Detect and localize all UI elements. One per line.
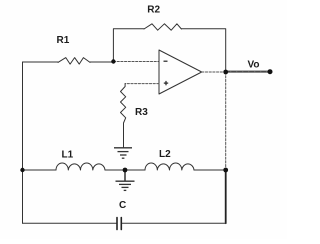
svg-text:R2: R2 (147, 5, 160, 16)
svg-text:L1: L1 (62, 150, 74, 161)
svg-text:R1: R1 (57, 35, 70, 46)
svg-text:R3: R3 (135, 107, 148, 118)
svg-text:Vo: Vo (248, 60, 260, 71)
svg-text:C: C (119, 200, 126, 211)
svg-text:L2: L2 (159, 149, 171, 160)
